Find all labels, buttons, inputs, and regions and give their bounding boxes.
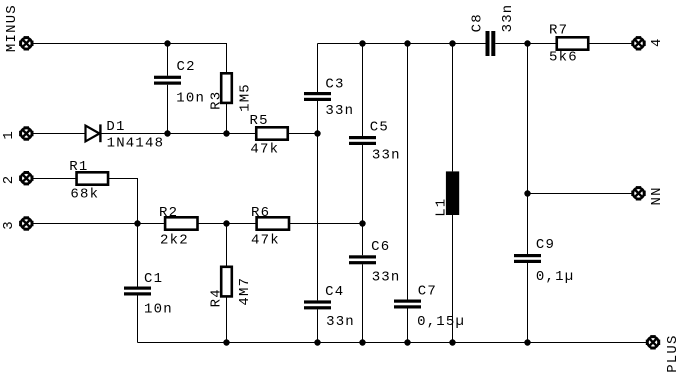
svg-text:0,1µ: 0,1µ bbox=[536, 269, 574, 285]
wire R5 to C3 column bbox=[288, 133, 318, 135]
junction row3 / R4 column bbox=[223, 220, 229, 226]
resistor R1 bbox=[77, 172, 109, 184]
svg-text:C6: C6 bbox=[371, 239, 390, 255]
svg-text:C4: C4 bbox=[325, 284, 344, 300]
svg-text:47k: 47k bbox=[251, 233, 280, 249]
junction bottom / C7 column bbox=[404, 339, 410, 345]
wire terminal 1 to D1 bbox=[34, 133, 86, 135]
terminal 2 bbox=[21, 173, 32, 184]
svg-text:C3: C3 bbox=[325, 77, 344, 93]
resistor R3 bbox=[221, 73, 232, 103]
wire C1 column lower bbox=[137, 296, 139, 343]
junction row3 / C6 column bbox=[359, 220, 365, 226]
wire C3 column upper bbox=[317, 44, 319, 93]
terminal NN bbox=[633, 188, 644, 199]
svg-text:4M7: 4M7 bbox=[237, 277, 253, 306]
svg-text:NN: NN bbox=[649, 186, 665, 205]
capacitor C3 bbox=[304, 92, 331, 95]
junction row1 / C3 column bbox=[314, 130, 320, 136]
wire R7 to terminal 4 bbox=[588, 43, 633, 45]
terminal PLUS bbox=[648, 337, 659, 348]
wire R3 to row1 bbox=[226, 103, 228, 134]
resistor R6 bbox=[257, 217, 289, 229]
svg-text:33n: 33n bbox=[372, 270, 401, 286]
wire row3 to C6 bbox=[362, 224, 364, 256]
resistor R7 bbox=[557, 37, 589, 49]
resistor R5 bbox=[256, 127, 288, 139]
junction top rail / L1 column bbox=[449, 40, 455, 46]
wire C4 to bottom rail bbox=[317, 309, 319, 342]
wire terminal 3 to R2 bbox=[34, 223, 166, 225]
wire R4 to bottom rail bbox=[226, 296, 228, 342]
svg-text:R7: R7 bbox=[549, 22, 568, 38]
junction row1 / R3 column bbox=[223, 130, 229, 136]
wire C3 to C4 bbox=[317, 101, 319, 300]
wire C1 column upper bbox=[137, 224, 139, 287]
wire L1 column upper bbox=[452, 44, 454, 172]
svg-text:R6: R6 bbox=[251, 205, 270, 221]
svg-text:10n: 10n bbox=[176, 91, 205, 107]
svg-text:33n: 33n bbox=[372, 148, 401, 164]
svg-text:C5: C5 bbox=[370, 120, 389, 136]
wire R1 to C1 column bbox=[108, 179, 138, 224]
svg-text:33n: 33n bbox=[326, 314, 355, 330]
svg-text:0,15µ: 0,15µ bbox=[417, 314, 465, 330]
junction bottom / C9 column bbox=[524, 339, 530, 345]
terminal 3 bbox=[21, 218, 32, 229]
wire C2 column upper bbox=[167, 44, 169, 76]
svg-text:L1: L1 bbox=[433, 198, 449, 217]
junction bottom / R4 column bbox=[223, 339, 229, 345]
svg-text:1M5: 1M5 bbox=[237, 83, 253, 112]
junction top rail / C5 column bbox=[359, 40, 365, 46]
capacitor C1 bbox=[124, 287, 151, 290]
wire bottom PLUS rail bbox=[138, 342, 648, 344]
wire row3 to R4 bbox=[226, 224, 228, 267]
svg-text:R2: R2 bbox=[159, 205, 178, 221]
wire L1 to bottom rail bbox=[452, 215, 454, 343]
svg-text:33n: 33n bbox=[325, 103, 354, 119]
svg-text:MINUS: MINUS bbox=[4, 4, 20, 52]
svg-text:C1: C1 bbox=[144, 271, 163, 287]
svg-text:5k6: 5k6 bbox=[549, 49, 578, 65]
svg-text:47k: 47k bbox=[250, 142, 279, 158]
wire C6 to bottom rail bbox=[362, 264, 364, 342]
wire C7 column upper bbox=[407, 44, 409, 300]
svg-text:2k2: 2k2 bbox=[160, 233, 189, 249]
junction top rail / C7 column bbox=[404, 40, 410, 46]
wire C7 to bottom rail bbox=[407, 309, 409, 343]
capacitor C8 bbox=[486, 31, 490, 56]
svg-text:R3: R3 bbox=[209, 91, 225, 110]
wire C5 column upper bbox=[362, 44, 364, 137]
junction bottom / C6 column bbox=[359, 339, 365, 345]
svg-text:68k: 68k bbox=[70, 187, 99, 203]
svg-text:R5: R5 bbox=[250, 113, 269, 129]
svg-text:3: 3 bbox=[1, 220, 17, 230]
terminal 1 bbox=[21, 128, 32, 139]
junction C8 / C9 column bbox=[524, 40, 530, 46]
svg-text:1N4148: 1N4148 bbox=[107, 136, 165, 152]
diode D1 1N4148 bbox=[86, 126, 100, 142]
terminal MINUS bbox=[21, 38, 32, 49]
wire R2 to R6 bbox=[198, 223, 257, 225]
capacitor C7 bbox=[394, 300, 421, 303]
capacitor C2 bbox=[154, 76, 181, 79]
resistor R2 bbox=[165, 217, 197, 229]
wire C5 to row3 bbox=[362, 145, 364, 224]
inductor L1 bbox=[446, 171, 459, 215]
svg-text:PLUS: PLUS bbox=[665, 334, 680, 372]
svg-text:10n: 10n bbox=[144, 302, 173, 318]
resistor R4 bbox=[221, 267, 232, 297]
wire C9 column to terminal NN bbox=[528, 193, 634, 195]
junction row1 / C2 column bbox=[164, 130, 170, 136]
wire D1 to R5 bbox=[100, 133, 256, 135]
wire top rail C3-column to C8 bbox=[318, 43, 486, 45]
svg-text:C2: C2 bbox=[177, 59, 196, 75]
capacitor C5 bbox=[349, 136, 376, 139]
svg-text:4: 4 bbox=[649, 37, 665, 47]
wire C8 to R7 bbox=[495, 43, 557, 45]
terminal 4 bbox=[633, 38, 644, 49]
junction row3 / C1 column bbox=[134, 220, 140, 226]
svg-text:1: 1 bbox=[1, 130, 17, 140]
svg-text:C7: C7 bbox=[418, 284, 437, 300]
svg-text:2: 2 bbox=[1, 175, 17, 185]
svg-text:33n: 33n bbox=[500, 4, 516, 33]
wire C9 to bottom rail bbox=[527, 263, 529, 343]
wire R6 to C6 column bbox=[289, 223, 363, 225]
wire C9 column upper bbox=[527, 44, 529, 255]
svg-text:D1: D1 bbox=[106, 119, 125, 135]
capacitor C6 bbox=[349, 255, 376, 258]
capacitor C4 bbox=[304, 300, 331, 303]
junction NN row / C9 column bbox=[524, 190, 530, 196]
svg-text:R1: R1 bbox=[69, 159, 88, 175]
wire terminal 2 to R1 bbox=[34, 178, 78, 180]
wire C2 column lower bbox=[167, 85, 169, 134]
svg-text:C8: C8 bbox=[469, 13, 485, 32]
svg-text:R4: R4 bbox=[209, 288, 225, 307]
svg-text:C9: C9 bbox=[536, 237, 555, 253]
junction bottom / C4 column bbox=[314, 339, 320, 345]
junction MINUS rail / C2 bbox=[164, 40, 170, 46]
junction bottom / L1 column bbox=[449, 339, 455, 345]
capacitor C9 bbox=[514, 254, 541, 257]
wire MINUS rail to R3 top bbox=[34, 44, 227, 74]
